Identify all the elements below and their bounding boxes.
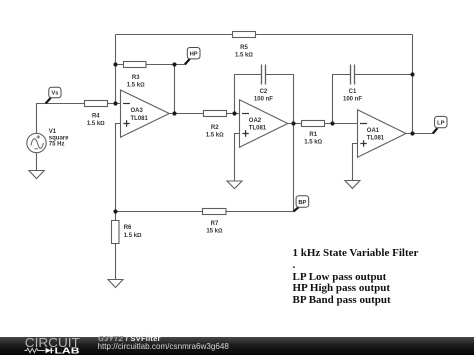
CircuitLab logo bbox=[0, 337, 95, 355]
svg-text:TL081: TL081 bbox=[367, 136, 385, 142]
wire V1 bottom to ground bbox=[36, 153, 38, 171]
svg-text:TL081: TL081 bbox=[249, 126, 267, 132]
svg-text:1.5 kΩ: 1.5 kΩ bbox=[235, 53, 253, 59]
node BP flag bbox=[294, 196, 309, 212]
svg-text:R5: R5 bbox=[240, 45, 248, 51]
wire OA2 non-inverting input to ground bbox=[235, 134, 240, 182]
resistor R4 bbox=[85, 101, 108, 107]
ground (below R6) bbox=[108, 280, 123, 288]
svg-text:HP: HP bbox=[190, 52, 198, 58]
wire bottom BP net (R7) bbox=[116, 211, 294, 213]
op-amp U OA2 TL081 bbox=[240, 100, 288, 148]
svg-text:TL081: TL081 bbox=[131, 116, 149, 122]
svg-text:1.5 kΩ: 1.5 kΩ bbox=[127, 83, 145, 89]
ground (below OA1) bbox=[345, 181, 360, 189]
ground (below V1) bbox=[29, 171, 44, 179]
wire HP node vertical to OA3 output bbox=[174, 65, 176, 114]
svg-text:Vs: Vs bbox=[51, 91, 58, 97]
value label V1 square 75 Hz bbox=[49, 129, 69, 147]
node LP flag bbox=[433, 116, 447, 133]
svg-text:1.5 kΩ: 1.5 kΩ bbox=[87, 121, 105, 127]
wire Vs node: V1 top, corner, to OA3 inverting input bbox=[37, 104, 121, 134]
node Vs flag bbox=[46, 87, 61, 103]
capacitor C2 bbox=[262, 65, 266, 85]
value label R1 1.5 k bbox=[304, 132, 322, 145]
node HP flag bbox=[185, 48, 200, 65]
svg-text:OA3: OA3 bbox=[131, 108, 144, 114]
resistor R7 bbox=[203, 209, 227, 215]
wire node A riser (joins R4, R3, top net) bbox=[115, 35, 117, 104]
wire top feedback net (R5) bbox=[116, 34, 413, 36]
svg-text:100 nF: 100 nF bbox=[343, 96, 362, 102]
svg-text:15 kΩ: 15 kΩ bbox=[206, 228, 223, 234]
svg-text:C2: C2 bbox=[260, 89, 268, 95]
svg-text:C1: C1 bbox=[349, 89, 357, 95]
wire OA2 output through R1 to OA1 inverting input bbox=[288, 123, 358, 125]
svg-text:R1: R1 bbox=[309, 132, 317, 138]
voltage source V1 bbox=[27, 133, 46, 152]
op-amp U OA1 TL081 bbox=[358, 110, 407, 157]
svg-text:R6: R6 bbox=[124, 225, 132, 231]
svg-text:R4: R4 bbox=[92, 114, 100, 120]
wire right riser (OA1 output to top feedback net) bbox=[412, 35, 414, 134]
wire OA3 non-inverting input down to bottom net bbox=[116, 124, 121, 212]
wire C1 right branch bbox=[355, 74, 413, 76]
value label R5 1.5 k bbox=[235, 45, 253, 58]
value label R7 15 k bbox=[206, 221, 223, 234]
svg-text:R2: R2 bbox=[211, 125, 219, 131]
resistor R5 bbox=[233, 32, 256, 38]
wire R6 top lead bbox=[115, 212, 117, 280]
wire OA3 output to OA2 inverting input bbox=[169, 113, 239, 115]
svg-text:R7: R7 bbox=[211, 221, 219, 227]
footer url text bbox=[98, 342, 229, 351]
value label C1 100 nF bbox=[343, 89, 362, 102]
wire C2 right branch down to BP net bbox=[266, 75, 294, 212]
svg-text:square: square bbox=[49, 135, 69, 141]
value label R4 1.5 k bbox=[87, 114, 105, 128]
svg-text:OA2: OA2 bbox=[249, 118, 262, 124]
ground (below OA2) bbox=[227, 181, 242, 189]
svg-text:OA1: OA1 bbox=[367, 128, 380, 134]
wire OA1 non-inverting input to ground bbox=[353, 144, 358, 181]
wire C2 left branch down to OA2 inverting input bbox=[235, 75, 262, 114]
capacitor C1 bbox=[351, 65, 355, 85]
footer bar bbox=[0, 337, 474, 355]
svg-text:R3: R3 bbox=[132, 75, 140, 81]
svg-text:1.5 kΩ: 1.5 kΩ bbox=[304, 140, 322, 146]
value label C2 100 nF bbox=[254, 89, 273, 102]
footer title text bbox=[98, 334, 161, 343]
svg-text:V1: V1 bbox=[49, 129, 57, 135]
svg-text:BP: BP bbox=[298, 200, 306, 206]
wire C1 left branch to OA1 inverting node bbox=[333, 75, 351, 124]
op-amp U OA3 TL081 bbox=[121, 90, 170, 137]
wire OA1 output to LP tag bbox=[406, 133, 433, 135]
svg-text:1.5 kΩ: 1.5 kΩ bbox=[206, 133, 224, 139]
value label R3 1.5 k bbox=[127, 75, 145, 88]
annotation text block bbox=[293, 248, 419, 308]
resistor R3 bbox=[124, 62, 147, 68]
resistor R1 bbox=[302, 121, 325, 127]
wire R3 net to HP tag bbox=[116, 64, 185, 66]
value label R2 1.5 k bbox=[206, 125, 224, 138]
value label R6 1.5 k bbox=[124, 225, 142, 239]
svg-text:LAB: LAB bbox=[55, 345, 80, 355]
svg-text:100 nF: 100 nF bbox=[254, 96, 273, 102]
resistor R6 bbox=[112, 221, 120, 244]
svg-text:LP: LP bbox=[437, 120, 445, 126]
svg-text:75 Hz: 75 Hz bbox=[49, 142, 65, 148]
resistor R2 bbox=[204, 111, 227, 117]
svg-text:1.5 kΩ: 1.5 kΩ bbox=[124, 233, 142, 239]
